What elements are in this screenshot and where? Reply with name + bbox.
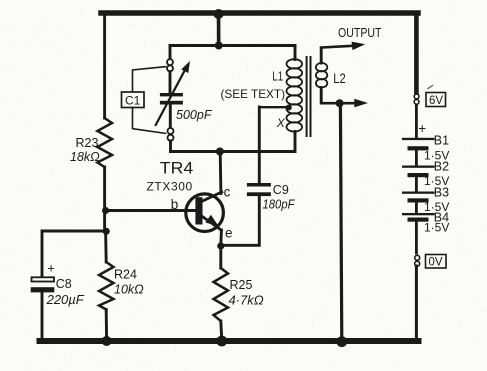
svg-text:1·5V: 1·5V (424, 221, 449, 235)
svg-text:C8: C8 (56, 277, 72, 291)
svg-text:B1: B1 (434, 134, 449, 148)
svg-text:b: b (171, 197, 179, 212)
svg-text:180pF: 180pF (263, 197, 296, 212)
wire C1 bracket bottom (133, 108, 166, 134)
node R25-rail junction (216, 336, 227, 347)
wire C9 bottom to emitter junction (222, 196, 259, 245)
label 0V box (426, 255, 447, 269)
wire L1 tap (259, 106, 288, 108)
svg-text:+: + (418, 121, 426, 136)
svg-text:10kΩ: 10kΩ (114, 283, 144, 297)
svg-text:TR4: TR4 (160, 160, 194, 178)
node 6V terminal circles (414, 94, 419, 99)
resistor R25 (214, 268, 229, 321)
wire output top + arrow (321, 46, 353, 48)
svg-text:ZTX300: ZTX300 (147, 180, 193, 194)
label C1 box (122, 92, 145, 108)
wire tank left lower (169, 141, 172, 152)
battery B2 (402, 166, 435, 168)
svg-text:R23: R23 (76, 136, 99, 150)
wire R24 to ground rail (105, 310, 108, 342)
wire left rail lower (104, 232, 107, 263)
wire cap plate to lower circles (169, 105, 172, 128)
wire tank left upper (169, 46, 172, 59)
battery B4 (402, 213, 435, 215)
node emitter junction (217, 242, 224, 249)
transformer core (306, 57, 308, 136)
wire 6V to battery (415, 105, 418, 138)
svg-text:C9: C9 (273, 183, 289, 197)
battery B1 (402, 138, 435, 140)
node L2 bottom junction (336, 99, 344, 107)
wire B4 to 0V (415, 222, 418, 253)
svg-text:C1: C1 (125, 94, 141, 108)
inductor L1 (294, 46, 297, 60)
svg-text:L2: L2 (333, 71, 345, 86)
svg-text:220µF: 220µF (46, 292, 85, 307)
svg-text:B2: B2 (434, 160, 449, 174)
svg-text:c: c (224, 184, 231, 199)
node base junction (102, 207, 109, 214)
wire junction down to ground rail (340, 103, 341, 341)
node top-rail junction (214, 9, 224, 19)
node R24-rail junction (102, 336, 112, 346)
right supply wire upper (414, 14, 419, 93)
svg-text:+: + (47, 261, 55, 276)
collector lead (202, 192, 222, 201)
wire tank bottom (171, 150, 296, 153)
emitter lead with arrow (201, 216, 221, 231)
wire left rail top (103, 15, 106, 118)
base bar (195, 197, 202, 224)
wire C1 bracket top (133, 67, 166, 92)
battery B3 (402, 192, 435, 194)
wire circle to cap plate (169, 72, 172, 93)
wire base lead (106, 209, 196, 212)
svg-text:4·7kΩ: 4·7kΩ (229, 293, 264, 308)
ground rail (0V bottom) (40, 338, 419, 344)
node terminal circles bottom of C1 (168, 128, 174, 134)
svg-text:18kΩ: 18kΩ (70, 150, 100, 164)
capacitor C9 (247, 183, 271, 187)
wire emitter vertical (219, 230, 222, 246)
node tap dot (286, 105, 292, 111)
svg-text:R25: R25 (230, 278, 253, 292)
wire C8 branch horizontal (42, 231, 106, 277)
wire emitter junction to R25 (219, 246, 222, 268)
svg-text:(SEE TEXT): (SEE TEXT) (221, 87, 286, 101)
svg-text:500pF: 500pF (176, 107, 213, 122)
inductor L2 (320, 48, 323, 63)
wire output bottom + arrow (321, 102, 356, 105)
wire collector vertical (219, 152, 223, 194)
wire tank top (170, 44, 295, 47)
node C8 junction (103, 228, 110, 235)
wire stub rail to tank (217, 14, 221, 46)
node output-rail junction (336, 336, 347, 347)
top supply rail (101, 10, 418, 16)
svg-text:L1: L1 (272, 69, 283, 84)
node tank bottom junction (216, 148, 224, 156)
label 6V box (428, 86, 433, 89)
svg-text:OUTPUT: OUTPUT (338, 25, 382, 40)
svg-text:0V: 0V (429, 257, 443, 269)
node 0V terminal circles (415, 255, 420, 260)
wire C8 to ground rail (41, 292, 44, 341)
node tank top junction (215, 42, 223, 50)
svg-text:6V: 6V (429, 95, 443, 107)
node terminal circles top of C1 (167, 59, 173, 65)
wire left rail mid (103, 167, 106, 232)
resistor R23 (97, 118, 112, 167)
svg-text:B3: B3 (434, 186, 449, 200)
svg-text:R24: R24 (114, 268, 137, 282)
wire 0V to ground rail (415, 266, 418, 341)
wire tap down to C9 (258, 107, 261, 183)
wire R25 to ground rail (221, 321, 222, 341)
resistor R24 (99, 262, 114, 310)
capacitor C1 variable 500pF (160, 93, 183, 96)
svg-text:e: e (225, 225, 233, 240)
svg-text:X: X (276, 116, 286, 130)
